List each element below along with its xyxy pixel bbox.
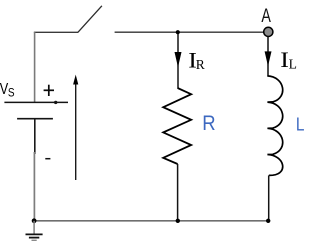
battery VS plate dot	[54, 101, 57, 104]
current arrow IL head	[265, 51, 272, 66]
inductor L coil	[267, 76, 282, 175]
ground stem	[33, 221, 35, 234]
svg-text:L: L	[296, 114, 305, 135]
current direction arrow (up) head	[73, 75, 78, 85]
svg-text:I: I	[280, 49, 289, 73]
current arrow IR head	[175, 52, 182, 67]
label IL	[280, 49, 297, 73]
wire bottom rail	[34, 220, 268, 222]
wire left rail upper	[34, 32, 36, 103]
wire right branch upper	[267, 37, 269, 77]
wire right branch lower	[268, 175, 270, 220]
svg-text:L: L	[289, 56, 297, 71]
battery VS bottom lead	[34, 119, 36, 154]
switch S1 blade	[78, 6, 102, 33]
wire middle branch lower	[177, 164, 179, 221]
wire middle branch upper	[177, 32, 179, 89]
battery VS top plate	[4, 101, 68, 103]
junction dot top middle	[176, 30, 180, 34]
wire top rail left segment	[34, 31, 78, 33]
junction dot bottom right	[266, 219, 270, 223]
label minus	[45, 158, 50, 160]
ground bar 3	[32, 239, 37, 241]
junction dot bottom middle	[176, 219, 180, 223]
resistor R zigzag	[163, 88, 191, 164]
svg-text:A: A	[261, 5, 271, 26]
ground bar 1	[26, 233, 43, 235]
label VS	[0, 81, 15, 100]
label plus	[44, 85, 54, 96]
svg-text:R: R	[202, 112, 215, 136]
svg-text:S: S	[8, 87, 15, 100]
battery VS bottom plate	[17, 118, 53, 120]
wire top rail right segment	[115, 31, 266, 33]
ground junction dot	[32, 218, 37, 223]
ground bar 2	[29, 237, 39, 239]
wire left rail lower	[33, 152, 35, 221]
label IR	[188, 49, 204, 73]
svg-text:R: R	[196, 57, 205, 72]
node A	[264, 27, 273, 36]
current direction arrow (up) shaft	[75, 83, 77, 180]
